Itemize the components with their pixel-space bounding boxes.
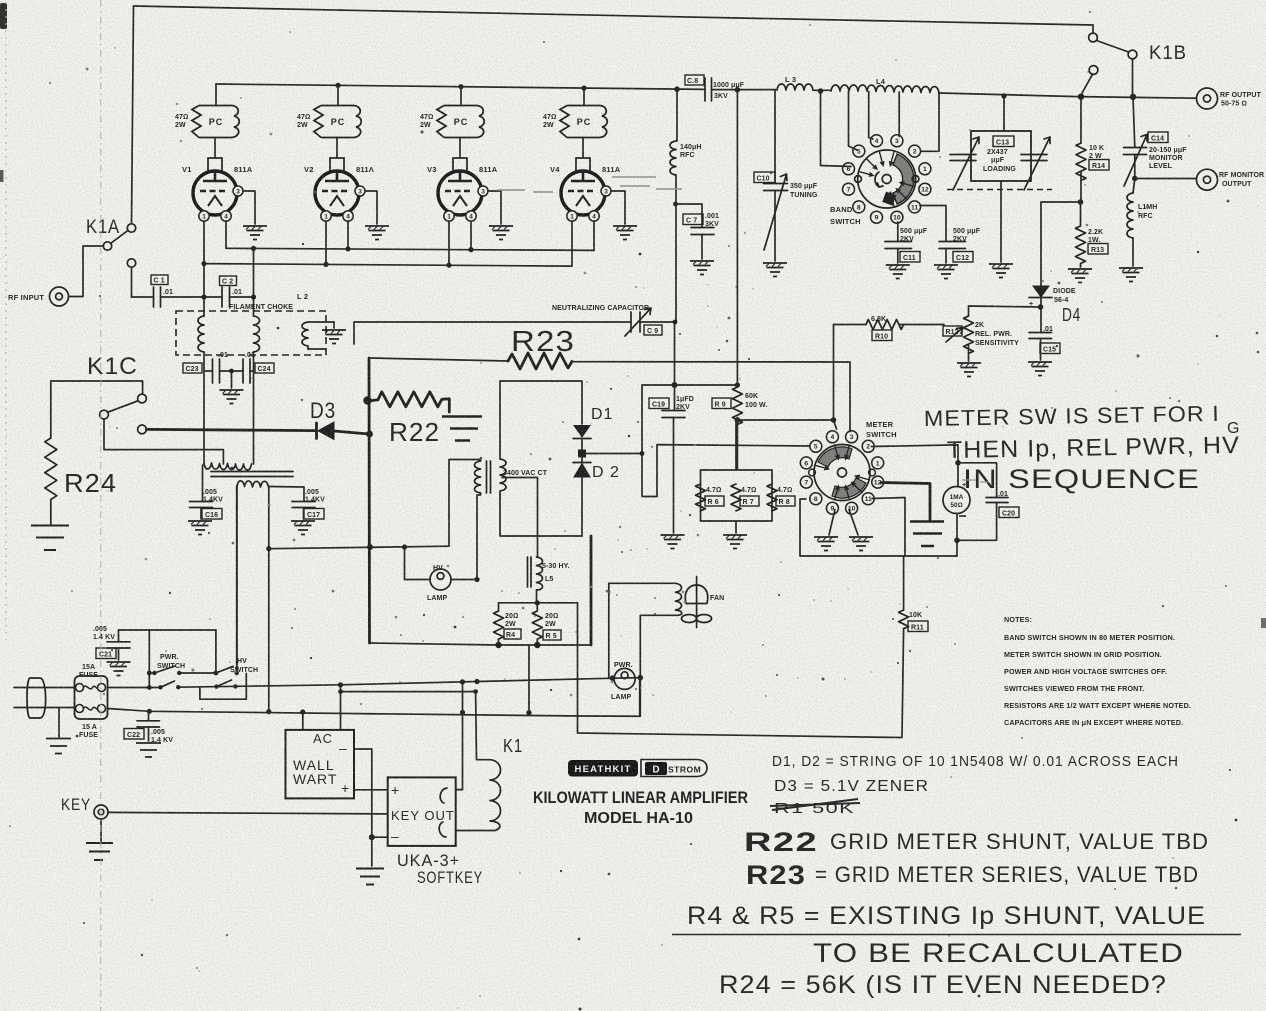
wire filament transformer right lead down [268, 486, 270, 712]
enclosure box [800, 499, 957, 556]
meter switch grounds [829, 510, 858, 536]
bottom rail [499, 644, 592, 646]
crossover [200, 674, 246, 700]
choke PC (V2 plate) [314, 106, 361, 138]
inductor L2 winding B [254, 316, 260, 352]
inductor L5 [528, 557, 532, 587]
transformer T2 heater winding [204, 463, 252, 470]
fan motor loop [609, 582, 676, 584]
ground (R22) [442, 417, 482, 441]
capacitor C16 [202, 465, 204, 501]
connector RF OUTPUT [1197, 88, 1218, 109]
resistor R4 [494, 611, 504, 639]
ground (V4 grid) [611, 191, 625, 224]
relay coil K1 [476, 692, 490, 760]
resistor R10 [834, 324, 867, 326]
wire lower filament bus [204, 264, 572, 267]
lamp PWR [614, 668, 635, 689]
ground (V3 grid) [488, 191, 501, 224]
transformer T1 primary [475, 461, 481, 493]
wire neutral-side link [269, 546, 449, 549]
ground (V1 grid) [243, 191, 255, 224]
wire K1C to D3 [146, 429, 316, 430]
wire K1A lower contact to C1 line [131, 267, 133, 297]
wire plate bus [216, 84, 705, 89]
potentiometer R12 [969, 306, 1041, 316]
wire top border / RF bypass line [134, 6, 1094, 25]
capacitor C23 [213, 359, 220, 383]
resistor R5 [532, 603, 542, 645]
inductor 140uH RFC [676, 89, 678, 141]
inductor L1 RFC [1133, 179, 1135, 194]
capacitor C22 [148, 711, 150, 720]
wire softkey out feeds [456, 683, 463, 790]
wire term2 to meter [872, 445, 959, 486]
wire mid feed [341, 691, 476, 693]
resistor R6 [696, 484, 706, 511]
wire big box [578, 603, 902, 738]
capacitor C10 variable tuning [774, 90, 776, 183]
transformer T1 core [487, 461, 491, 493]
wire grid return vertical [368, 358, 371, 643]
capacitor C7 [676, 204, 703, 227]
inductor L3 [777, 84, 813, 90]
diode D4 [1033, 286, 1049, 297]
fan symbol [696, 577, 698, 628]
capacitor C8 [705, 78, 712, 101]
choke PC (V1 plate) [192, 106, 239, 138]
capacitor C24 [243, 359, 250, 383]
plug P1 [27, 678, 46, 718]
resistor R8 [767, 484, 777, 511]
relay contact K1A [86, 217, 136, 297]
relay contact K1C [138, 394, 147, 403]
ground (R24) [31, 526, 69, 551]
wire input line [132, 296, 254, 298]
wire R10 to R9 node [737, 325, 836, 430]
diode D1 [574, 426, 590, 438]
wire L4 taps to band switch [849, 91, 940, 151]
resistor R23 [508, 353, 572, 369]
capacitor C15 [1029, 333, 1052, 339]
transformer T2 core [211, 472, 293, 477]
capacitor C11 [897, 222, 899, 241]
terminals 1-12 [843, 135, 931, 223]
wire C2 node down to L2 [253, 248, 255, 316]
resistor R9 [736, 90, 738, 387]
AC wall wart [286, 730, 355, 799]
capacitor C1 [154, 287, 161, 307]
transformer T1 secondary (on left edge) [500, 459, 506, 495]
ground (softkey) [371, 837, 373, 866]
wire K1C top [51, 381, 143, 438]
resistor R7 [731, 484, 741, 511]
wire pin4 drops [226, 221, 594, 250]
capacitor C13b variable [1021, 155, 1047, 161]
ground (line cord) [58, 708, 60, 738]
wire C13 to plate line [1003, 96, 1005, 131]
tube V1 811A [193, 158, 243, 221]
wire HV rail [642, 384, 737, 386]
wire term11 to box [872, 498, 905, 557]
transformer T2 primary [237, 481, 269, 487]
rotor hatched segment [893, 154, 914, 204]
capacitor C13a variable [950, 155, 976, 161]
tube V3 811A [438, 158, 488, 221]
wire grid return bottom to R4/R5 rail [370, 643, 499, 645]
wire pin1 drops [204, 221, 572, 316]
wire R13 node to D4 [1041, 202, 1081, 286]
ground (V2 grid) [365, 191, 377, 224]
capacitor C20 [957, 463, 997, 541]
resistor R14 [1080, 97, 1082, 143]
inductor L2 winding A [198, 316, 204, 352]
tube V4 811A [561, 158, 611, 221]
resistor R24 [45, 438, 57, 524]
wire upper filament bus [226, 248, 594, 250]
capacitor C14 variable [1133, 97, 1135, 147]
inductor L2 winding C [302, 322, 308, 349]
capacitor C17 [269, 487, 304, 502]
R4/R5 rails [499, 603, 578, 645]
capacitor C2 [222, 287, 230, 307]
connector RF MONITOR OUTPUT [1135, 178, 1196, 180]
capacitor C21 [108, 630, 161, 688]
wire CT [502, 478, 538, 558]
wire neutralizing line [354, 322, 674, 344]
wire filament bypass node [204, 352, 254, 464]
wire term12 chassis [881, 483, 930, 522]
diode D2 [574, 464, 590, 478]
tube V2 811A [315, 158, 365, 221]
wire plate line to L3 [712, 89, 778, 91]
wire neutral line [108, 678, 640, 717]
choke PC (V4 plate) [560, 106, 607, 138]
wire L4 to K1B/RF out [939, 93, 1196, 98]
ground (L2) [333, 322, 335, 328]
wire heavy right edge down [590, 536, 593, 645]
wire wall wart minus [354, 749, 388, 837]
capacitor C12 [920, 206, 946, 242]
resistor R22 [371, 392, 449, 412]
wire R23 left [369, 358, 508, 361]
ground (C23/C24) [231, 371, 233, 388]
meter M1 1MA [943, 487, 970, 514]
resistor R13 [1076, 202, 1086, 267]
wire primary leads [449, 460, 481, 580]
wire left border down to K1A [132, 6, 134, 223]
connector RF INPUT [8, 246, 104, 306]
wire RF input to K1A pivot [69, 246, 104, 297]
wire R23 to meter switch terminal 3 [572, 362, 850, 432]
capacitor C9 variable [631, 312, 640, 332]
capacitor C19 [674, 385, 676, 410]
wire K1C pivot to transformer CT [104, 419, 223, 464]
softkey box [388, 777, 456, 846]
wire rail drop x529 [528, 646, 530, 713]
choke PC (V3 plate) [437, 106, 484, 138]
fuse box F1/F2 15A [75, 676, 108, 719]
wire hot line [178, 678, 640, 688]
